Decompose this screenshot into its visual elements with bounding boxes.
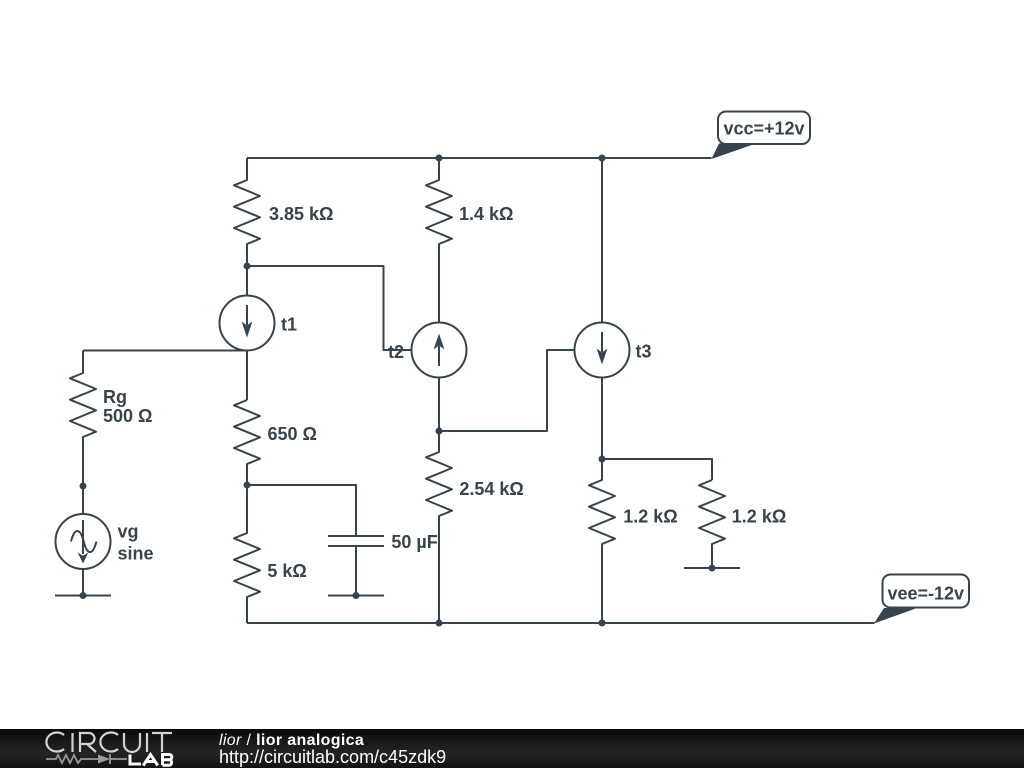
svg-text:sine: sine: [118, 544, 154, 564]
svg-text:Rg: Rg: [103, 387, 127, 407]
svg-text:3.85 kΩ: 3.85 kΩ: [269, 204, 333, 224]
svg-text:vg: vg: [118, 522, 139, 542]
svg-text:vcc=+12v: vcc=+12v: [723, 119, 804, 139]
svg-text:500 Ω: 500 Ω: [103, 406, 152, 426]
svg-text:1.2 kΩ: 1.2 kΩ: [732, 506, 786, 526]
svg-text:50 µF: 50 µF: [391, 532, 437, 552]
svg-text:1.2 kΩ: 1.2 kΩ: [623, 506, 677, 526]
svg-text:vee=-12v: vee=-12v: [887, 584, 964, 604]
svg-text:1.4 kΩ: 1.4 kΩ: [459, 204, 513, 224]
svg-text:t2: t2: [388, 342, 404, 362]
svg-text:t3: t3: [636, 342, 652, 362]
svg-text:t1: t1: [281, 315, 297, 335]
svg-text:2.54 kΩ: 2.54 kΩ: [459, 479, 523, 499]
svg-text:5 kΩ: 5 kΩ: [267, 561, 306, 581]
svg-text:650 Ω: 650 Ω: [268, 424, 317, 444]
